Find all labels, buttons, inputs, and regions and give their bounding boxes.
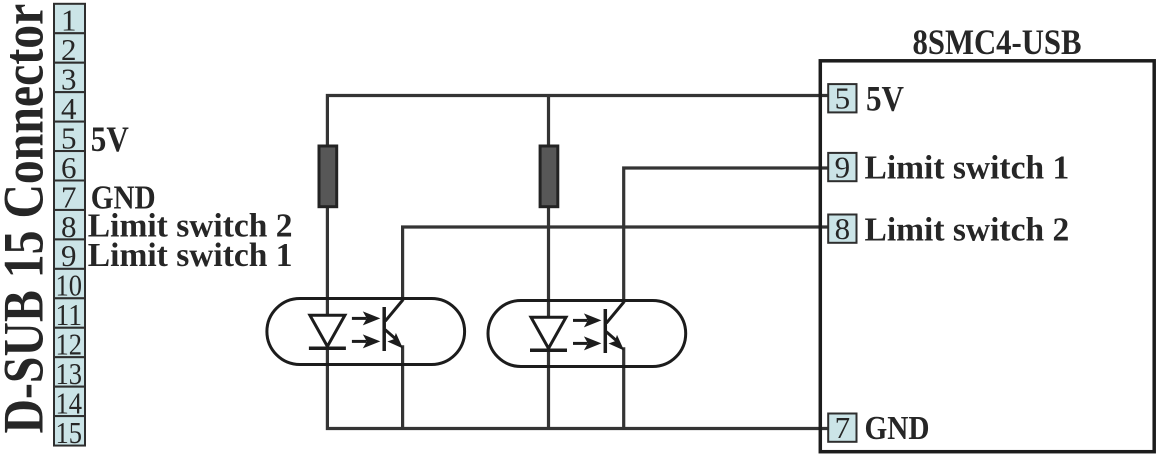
U1 collector lead [385,300,403,321]
svg-text:Limit switch 2: Limit switch 2 [865,211,1070,248]
svg-text:Limit switch 1: Limit switch 1 [88,237,293,274]
optocoupler U2 [488,301,686,367]
net label 5V at D-SUB pin 5 [91,119,129,159]
controller pin 7 [828,410,856,445]
controller pin 9 [828,150,856,185]
D-SUB pin 15 [54,415,85,450]
U1 light arrow lower [352,340,367,343]
D-SUB pin 13 [54,356,85,391]
D-SUB pin 8 [54,209,85,244]
D-SUB pin 14 [54,385,85,420]
wire 5V rail: top horizontal from R1 branch to controller pin 5, plus R1 upper branch down to LED D1 anode [327,96,830,317]
svg-text:GND: GND [865,410,930,447]
D-SUB pin 5 [54,120,85,155]
svg-text:5V: 5V [91,119,129,159]
wire Limit switch 1 net: controller pin 9 to U2 collector [624,168,830,303]
wire Limit switch 2 net: controller pin 8 to U1 collector [403,227,830,301]
wire U1 emitter to GND rail [401,345,404,428]
wire R2 branch from 5V rail down to LED D2 anode [547,96,550,319]
controller pin 5 label 5V [866,79,904,119]
svg-text:5: 5 [835,81,851,116]
U1 light arrow upper [352,317,367,320]
wire GND rail: LED D1 cathode down, bottom horizontal to controller pin 7 [327,346,830,429]
U2 LED cathode bar [530,348,567,352]
D-SUB pin 3 [54,62,85,97]
U1 body outline [267,299,465,365]
D-SUB pin 6 [54,150,85,185]
D-SUB pin 4 [54,91,85,126]
D-SUB pin 2 [54,32,85,67]
U2 light arrow lower [573,342,588,345]
D-SUB pin 10 [54,268,85,303]
controller title 8SMC4-USB [913,22,1082,62]
resistor R1 [319,146,337,207]
U1 emitter arrowhead [387,333,403,349]
U2 body outline [488,301,686,367]
svg-text:Limit switch 1: Limit switch 1 [865,149,1070,186]
svg-text:7: 7 [835,410,851,445]
net label Limit switch 1 at D-SUB pin 9 [88,237,293,274]
U1 LED cathode bar [309,346,346,350]
net label GND at D-SUB pin 7 [91,179,156,216]
svg-text:8SMC4-USB: 8SMC4-USB [913,22,1082,62]
U2 light arrow upper [573,319,588,322]
controller pin 8 [828,211,856,246]
connector title D-SUB 15 Connector [0,4,56,434]
svg-text:8: 8 [835,211,851,246]
D-SUB pin 12 [54,327,85,362]
D-SUB pin 9 [54,238,85,273]
optocoupler U1 [267,299,465,365]
svg-text:15: 15 [56,415,83,450]
U2 phototransistor base bar [604,309,608,353]
controller 8SMC4-USB box [820,61,1154,452]
controller pin 8 label Limit switch 2 [865,211,1070,248]
D-SUB pin 1 [54,3,85,38]
U1 LED triangle [310,315,345,346]
U1 phototransistor base bar [382,307,386,351]
net label Limit switch 2 at D-SUB pin 8 [88,207,293,244]
D-SUB pin 11 [54,297,85,332]
svg-text:9: 9 [835,150,851,185]
wire LED D2 cathode to GND rail [547,348,550,429]
resistor R2 [540,146,558,207]
U1 emitter lead [385,330,397,341]
controller pin 7 label GND [865,410,930,447]
wire U2 emitter to GND rail [622,347,625,428]
controller pin 9 label Limit switch 1 [865,149,1070,186]
svg-text:D-SUB 15 Connector: D-SUB 15 Connector [0,4,56,434]
U2 LED triangle [531,317,566,348]
controller pin 5 [828,81,856,116]
U2 emitter lead [606,332,618,343]
U2 emitter arrowhead [609,335,625,351]
svg-text:5V: 5V [866,79,904,119]
U2 collector lead [606,302,624,323]
D-SUB pin 7 [54,179,85,214]
